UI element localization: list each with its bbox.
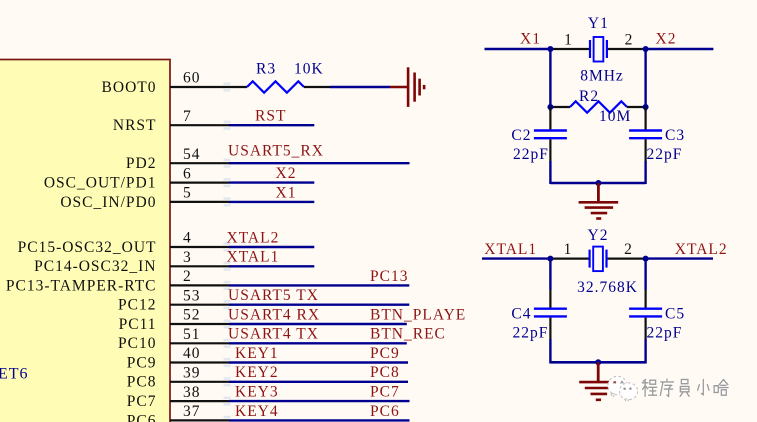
svg-text:PC10: PC10	[118, 335, 156, 352]
svg-text:39: 39	[183, 365, 201, 382]
svg-text:RST: RST	[255, 108, 286, 125]
svg-text:10M: 10M	[599, 108, 631, 125]
svg-text:2: 2	[624, 241, 633, 258]
svg-text:PC9: PC9	[370, 345, 400, 362]
svg-text:C4: C4	[511, 305, 531, 322]
svg-text:R2: R2	[579, 88, 599, 105]
svg-text:X1: X1	[520, 31, 541, 48]
svg-text:PC6: PC6	[370, 403, 400, 420]
svg-text:XTAL2: XTAL2	[227, 229, 280, 246]
svg-text:PC6: PC6	[127, 412, 157, 422]
svg-text:X2: X2	[276, 165, 297, 182]
svg-text:KEY1: KEY1	[235, 345, 279, 362]
svg-text:7: 7	[183, 108, 192, 125]
svg-text:Y2: Y2	[588, 227, 609, 244]
svg-text:USART4 RX: USART4 RX	[228, 306, 320, 323]
svg-text:X1: X1	[276, 184, 297, 201]
svg-text:ET6: ET6	[0, 366, 29, 383]
svg-text:OSC_OUT/PD1: OSC_OUT/PD1	[44, 175, 157, 192]
svg-text:C5: C5	[665, 305, 685, 322]
svg-text:PC12: PC12	[118, 297, 156, 314]
svg-text:51: 51	[183, 326, 201, 343]
svg-text:OSC_IN/PD0: OSC_IN/PD0	[60, 194, 156, 211]
svg-text:PC9: PC9	[127, 354, 157, 371]
svg-text:XTAL2: XTAL2	[675, 241, 728, 258]
svg-text:PC7: PC7	[370, 384, 400, 401]
svg-text:52: 52	[183, 307, 201, 324]
svg-text:XTAL1: XTAL1	[484, 241, 537, 258]
svg-text:X2: X2	[656, 31, 677, 48]
svg-text:XTAL1: XTAL1	[227, 249, 280, 266]
svg-text:USART5 TX: USART5 TX	[228, 287, 319, 304]
svg-text:PC15-OSC32_OUT: PC15-OSC32_OUT	[18, 239, 157, 256]
svg-text:54: 54	[183, 146, 201, 163]
svg-text:22pF: 22pF	[513, 325, 549, 342]
svg-text:R3: R3	[256, 61, 276, 78]
svg-text:C3: C3	[665, 127, 685, 144]
svg-text:53: 53	[183, 287, 201, 304]
svg-text:NRST: NRST	[113, 117, 157, 134]
svg-text:2: 2	[625, 31, 634, 48]
svg-text:KEY4: KEY4	[235, 403, 279, 420]
svg-text:PC7: PC7	[127, 393, 157, 410]
svg-text:PC13-TAMPER-RTC: PC13-TAMPER-RTC	[6, 277, 157, 294]
svg-text:5: 5	[183, 185, 192, 202]
svg-text:C2: C2	[511, 127, 531, 144]
svg-text:10K: 10K	[294, 61, 324, 78]
svg-text:4: 4	[183, 230, 192, 247]
svg-text:1: 1	[564, 241, 573, 258]
svg-text:BTN_PLAYE: BTN_PLAYE	[370, 306, 466, 323]
svg-text:2: 2	[183, 268, 192, 285]
svg-text:KEY3: KEY3	[235, 384, 279, 401]
svg-text:1: 1	[564, 31, 573, 48]
svg-text:PC11: PC11	[119, 316, 157, 333]
svg-text:USART5_RX: USART5_RX	[228, 142, 324, 159]
svg-text:KEY2: KEY2	[235, 364, 279, 381]
svg-text:22pF: 22pF	[647, 325, 683, 342]
svg-text:22pF: 22pF	[647, 146, 683, 163]
svg-text:60: 60	[183, 70, 201, 87]
svg-text:6: 6	[183, 165, 192, 182]
svg-text:3: 3	[183, 249, 192, 266]
svg-text:PD2: PD2	[126, 155, 157, 172]
svg-text:22pF: 22pF	[513, 146, 549, 163]
svg-text:PC8: PC8	[370, 364, 400, 381]
svg-text:38: 38	[183, 384, 201, 401]
svg-text:32.768K: 32.768K	[577, 279, 638, 296]
svg-text:USART4 TX: USART4 TX	[228, 326, 319, 343]
svg-text:8MHz: 8MHz	[580, 67, 624, 84]
svg-text:Y1: Y1	[588, 15, 609, 32]
svg-text:PC13: PC13	[370, 268, 408, 285]
svg-text:BTN_REC: BTN_REC	[370, 326, 446, 343]
svg-text:PC8: PC8	[127, 374, 157, 391]
svg-text:40: 40	[183, 345, 201, 362]
svg-text:PC14-OSC32_IN: PC14-OSC32_IN	[34, 258, 156, 275]
svg-text:BOOT0: BOOT0	[102, 79, 157, 96]
svg-text:37: 37	[183, 403, 201, 420]
